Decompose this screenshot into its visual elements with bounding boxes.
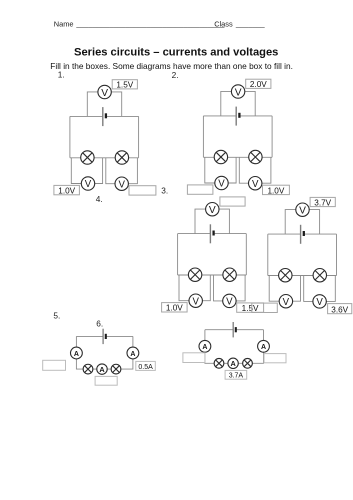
svg-text:A: A <box>99 365 105 374</box>
battery cell (circuit 3) <box>210 224 213 243</box>
ammeter left (circuit 6) <box>199 340 211 352</box>
answer box bottom-left (1.0V) circuit 1 <box>54 185 80 195</box>
voltmeter (battery voltage, circuit 3) <box>206 203 219 217</box>
lamp 1 (circuit 6) <box>214 358 224 368</box>
svg-text:5.: 5. <box>53 311 60 321</box>
voltmeter (lamp 2 voltage, circuit 1) <box>115 177 128 190</box>
circuit 3: main loop rectangle wires <box>178 234 247 275</box>
svg-text:A: A <box>202 344 207 351</box>
battery cell (circuit 6) <box>233 322 236 337</box>
wire: voltmeter loop around lamp 2 (circuit 2) <box>239 157 271 183</box>
svg-text:______________________________: ____________________________________ <box>75 20 225 29</box>
svg-text:1.5V: 1.5V <box>116 81 133 90</box>
svg-text:Series circuits – currents and: Series circuits – currents and voltages <box>74 46 278 58</box>
answer box right (0.5A) circuit 5 <box>136 361 156 370</box>
wire: voltmeter loop around lamp 2 (circuit 3) <box>214 275 246 301</box>
answer box left (empty) circuit 5 <box>43 360 66 370</box>
svg-text:1.5V: 1.5V <box>242 304 259 313</box>
svg-text:3.7A: 3.7A <box>229 373 244 380</box>
wire: top voltmeter loop (circuit 3) <box>195 209 229 234</box>
battery cell (circuit 1) <box>103 107 106 126</box>
svg-text:2.0V: 2.0V <box>250 80 267 89</box>
svg-text:2.: 2. <box>172 70 179 80</box>
circuit 1: main loop rectangle wires <box>70 116 139 157</box>
svg-text:1.: 1. <box>58 69 65 79</box>
battery cell (circuit 5) <box>103 329 106 344</box>
voltmeter (lamp 1 voltage, circuit 2) <box>215 176 228 189</box>
answer box bottom-left (empty) circuit 4 <box>252 303 277 312</box>
answer box top (empty) circuit 3 <box>220 197 245 206</box>
svg-text:A: A <box>130 351 135 358</box>
voltmeter (lamp 2 voltage, circuit 4) <box>313 295 326 308</box>
svg-text:3.: 3. <box>161 186 168 196</box>
svg-text:3.7V: 3.7V <box>314 198 331 207</box>
ammeter centre (circuit 5) <box>97 364 107 374</box>
svg-text:V: V <box>101 88 108 99</box>
ammeter left (circuit 5) <box>71 347 83 359</box>
answer box top (1.5V) circuit 1 <box>112 80 137 90</box>
answer box right (empty) circuit 6 <box>264 354 286 363</box>
answer box bottom-left (empty) circuit 2 <box>187 185 213 194</box>
svg-text:A: A <box>261 344 266 351</box>
answer box left (empty) circuit 6 <box>183 353 205 363</box>
svg-text:1.0V: 1.0V <box>267 186 284 195</box>
wire: voltmeter loop around lamp 2 (circuit 1) <box>106 158 138 184</box>
voltmeter (battery voltage, circuit 4) <box>296 203 309 217</box>
svg-text:_______: _______ <box>235 20 266 29</box>
svg-text:V: V <box>226 297 233 308</box>
header name/class line <box>54 20 266 29</box>
wire: voltmeter loop around lamp 1 (circuit 3) <box>179 275 210 301</box>
wire: voltmeter loop around lamp 2 (circuit 4) <box>304 276 336 302</box>
lamp 1 (circuit 3) <box>188 268 201 281</box>
wire: voltmeter loop around lamp 1 (circuit 2) <box>205 157 236 183</box>
lamp 1 (circuit 4) <box>279 269 292 282</box>
svg-text:V: V <box>235 87 242 98</box>
svg-text:4.: 4. <box>96 194 103 204</box>
voltmeter (lamp 2 voltage, circuit 3) <box>223 294 236 307</box>
svg-text:V: V <box>209 205 216 216</box>
wire: series loop (circuit 6) <box>205 330 264 364</box>
svg-text:V: V <box>299 206 306 217</box>
lamp 2 (circuit 3) <box>223 268 236 281</box>
lamp 2 (circuit 6) <box>243 358 253 368</box>
lamp 2 (circuit 2) <box>249 150 262 163</box>
svg-text:1.0V: 1.0V <box>166 304 183 313</box>
svg-text:A: A <box>74 351 79 358</box>
svg-text:Name: Name <box>54 20 74 29</box>
answer box bottom-right (1.0V) circuit 2 <box>263 185 290 195</box>
svg-text:V: V <box>192 296 199 307</box>
answer box bottom-right (1.5V) circuit 3 <box>237 303 264 313</box>
voltmeter (lamp 1 voltage, circuit 4) <box>279 295 292 308</box>
ammeter centre (circuit 6) <box>228 358 238 368</box>
svg-text:Class: Class <box>214 20 233 29</box>
voltmeter (lamp 1 voltage, circuit 1) <box>81 177 94 190</box>
svg-text:V: V <box>118 179 125 190</box>
ammeter right (circuit 6) <box>258 340 270 352</box>
svg-text:V: V <box>218 179 225 190</box>
svg-text:V: V <box>252 179 259 190</box>
wire: series loop (circuit 5) <box>76 336 132 369</box>
lamp 1 (circuit 5) <box>83 364 93 374</box>
circuit 4: main loop rectangle wires <box>268 234 337 275</box>
lamp 2 (circuit 1) <box>115 151 128 164</box>
voltmeter (lamp 2 voltage, circuit 2) <box>249 177 262 190</box>
answer box bottom (3.7A) circuit 6 <box>225 370 247 379</box>
wire: top voltmeter loop (circuit 2) <box>221 91 255 116</box>
answer box bottom-left (1.0V) circuit 3 <box>162 303 188 313</box>
svg-text:V: V <box>85 179 92 190</box>
svg-text:V: V <box>283 297 290 308</box>
lamp 2 (circuit 4) <box>313 269 326 282</box>
battery cell (circuit 2) <box>236 107 239 126</box>
svg-text:0.5A: 0.5A <box>138 364 153 371</box>
answer box top (3.7V) circuit 4 <box>310 197 335 207</box>
wire: top voltmeter loop (circuit 4) <box>285 210 319 235</box>
answer box bottom-right (3.6V) circuit 4 <box>328 304 352 315</box>
circuit 2: main loop rectangle wires <box>203 116 272 157</box>
voltmeter (battery voltage, circuit 1) <box>98 85 111 99</box>
svg-text:A: A <box>230 359 236 368</box>
ammeter right (circuit 5) <box>127 347 139 359</box>
voltmeter (lamp 1 voltage, circuit 3) <box>189 294 202 307</box>
svg-text:1.0V: 1.0V <box>58 187 75 196</box>
lamp 2 (circuit 5) <box>111 364 121 374</box>
svg-text:3.6V: 3.6V <box>331 305 348 314</box>
answer box bottom-right (empty) circuit 1 <box>129 186 156 195</box>
wire: top voltmeter loop (circuit 1) <box>87 92 121 117</box>
answer box top (2.0V) circuit 2 <box>246 79 271 89</box>
lamp 1 (circuit 1) <box>81 151 94 164</box>
voltmeter (battery voltage, circuit 2) <box>231 85 244 99</box>
svg-text:V: V <box>316 297 323 308</box>
lamp 1 (circuit 2) <box>214 150 227 163</box>
answer box bottom (empty) circuit 5 <box>95 376 117 385</box>
battery cell (circuit 4) <box>301 225 304 244</box>
svg-text:6.: 6. <box>96 319 103 329</box>
wire: voltmeter loop around lamp 1 (circuit 4) <box>269 276 300 302</box>
wire: voltmeter loop around lamp 1 (circuit 1) <box>71 158 102 184</box>
